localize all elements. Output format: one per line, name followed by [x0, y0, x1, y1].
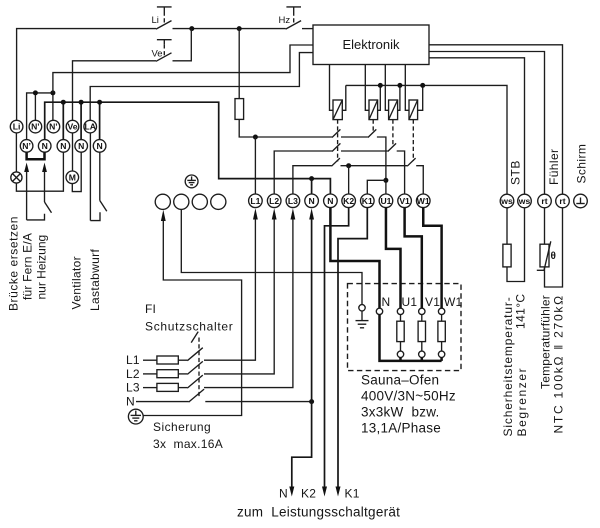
fuse L3	[143, 387, 157, 389]
svg-text:N: N	[78, 141, 84, 151]
linkage coil K4 to row3 contact	[412, 120, 414, 161]
terminal ws1	[500, 194, 514, 208]
wire row2 mid segment	[341, 150, 388, 152]
svg-text:N: N	[327, 196, 333, 206]
wire box right output to rt2	[429, 45, 563, 194]
terminal L1	[249, 194, 263, 208]
node row1 K1 tap dot	[383, 178, 388, 183]
wire N' bus to Elektronik box input	[53, 45, 313, 93]
switch Ve actuator dashed stem	[163, 44, 165, 57]
svg-text:Elektronik: Elektronik	[342, 37, 400, 52]
relay coil K3 leads	[385, 65, 400, 111]
svg-text:W1: W1	[417, 196, 430, 206]
switch Ve actuator T-bar	[157, 40, 172, 45]
svg-text:K1: K1	[362, 196, 373, 206]
svg-text:N: N	[382, 295, 391, 309]
svg-text:nur Heizung: nur Heizung	[35, 235, 49, 300]
svg-text:N: N	[96, 141, 102, 151]
wire W1 to oven	[423, 208, 441, 309]
svg-text:N’: N’	[22, 141, 31, 151]
wire box right output to rt1	[429, 52, 545, 195]
terminal rt1	[538, 194, 552, 208]
svg-text:Schutzschalter: Schutzschalter	[145, 320, 234, 334]
wire row3 mid segment	[341, 165, 408, 167]
svg-text:N: N	[308, 196, 314, 206]
relay coil K1 body	[333, 100, 342, 120]
wire N supply to junction	[205, 401, 311, 403]
switch Lastabwurf blade	[100, 201, 107, 212]
wire PE circle 2 to oven chassis	[181, 209, 362, 304]
thermal limiter STB element	[506, 208, 508, 244]
svg-text:V1: V1	[425, 295, 440, 309]
terminal L3	[286, 194, 300, 208]
svg-text:L1: L1	[126, 353, 140, 367]
arrow up into terminal L2	[272, 208, 277, 219]
motor M ventilator	[66, 171, 79, 184]
fuse F1 control circuit	[235, 99, 244, 120]
wire remote switch stub and bottom	[27, 214, 45, 220]
svg-text:ws: ws	[518, 196, 531, 206]
wire row1 output to U1	[377, 137, 386, 194]
svg-text:3x3kW bzw.: 3x3kW bzw.	[361, 405, 440, 420]
terminal N row2-4	[75, 140, 88, 153]
wire lamp to N circle 3	[16, 152, 63, 191]
svg-text:L1: L1	[250, 196, 260, 206]
svg-text:STB: STB	[509, 160, 523, 185]
wire Lastabwurf stub and bottom	[90, 212, 100, 220]
earth symbol above PE block	[185, 175, 198, 188]
wire Ve switch output up to Li junction	[173, 29, 192, 61]
earth symbol supply PE	[128, 409, 143, 424]
oven PE terminal	[359, 305, 365, 311]
node N supply junction	[309, 399, 314, 404]
svg-text:V1: V1	[399, 196, 410, 206]
actuator FI tick	[191, 332, 198, 343]
contact row3 K4 blade	[407, 158, 415, 166]
wire oven star point N bus	[380, 315, 442, 361]
wire STB loop bottom	[507, 208, 525, 282]
svg-text:400V/3N~50Hz: 400V/3N~50Hz	[361, 389, 456, 404]
arrow up into bridge left	[24, 163, 29, 173]
switch Li actuator T-bar	[157, 7, 172, 12]
terminal K2	[342, 194, 356, 208]
wire L3 to terminal riser	[204, 219, 293, 388]
fuse L2	[143, 373, 157, 375]
svg-text:Ve: Ve	[67, 122, 77, 132]
svg-text:θ: θ	[551, 251, 556, 262]
node bridge bus dot 2	[50, 90, 55, 95]
wire K2 terminal down to output arrow	[325, 208, 349, 487]
switch FI pole L3 blade	[187, 375, 203, 388]
lamp sauna light	[11, 172, 22, 183]
fuse L1	[143, 359, 157, 361]
svg-text:Begrenzer: Begrenzer	[515, 367, 529, 437]
node row3 K2-terminal tap dot	[346, 163, 351, 168]
terminal rt2	[556, 194, 570, 208]
wire N drop to circle 5	[99, 102, 101, 140]
relay coil K4 leads	[405, 65, 422, 111]
contact row1 K2 blade	[368, 129, 376, 137]
relay coil K4 body	[409, 100, 418, 120]
terminal N' row2-1	[20, 140, 33, 153]
svg-text:Schirm: Schirm	[575, 144, 589, 184]
arrow up into terminal N1	[309, 208, 314, 219]
terminal Schirm earth	[574, 194, 588, 208]
relay coil K2 leads	[365, 65, 380, 111]
switch FI pole N blade	[189, 389, 205, 402]
arrow down output K1	[336, 487, 341, 497]
wire K2 terminal tap	[348, 166, 350, 194]
wire neutral bus to N terminals	[45, 102, 331, 194]
svg-text:N: N	[279, 487, 288, 501]
terminal LA	[84, 120, 97, 133]
terminal W1	[416, 194, 430, 208]
svg-text:L2: L2	[269, 196, 279, 206]
contact row2 K3 blade	[388, 143, 396, 151]
terminal Li	[10, 120, 23, 133]
node junction fuse top	[237, 26, 242, 31]
node bridge bus dot 1	[33, 90, 38, 95]
arrow up into terminal L1	[253, 208, 258, 219]
linkage FI dashed	[198, 338, 200, 398]
svg-text:FI: FI	[145, 302, 156, 316]
svg-text:rt: rt	[541, 196, 547, 206]
svg-text:L3: L3	[288, 196, 298, 206]
svg-text:K2: K2	[301, 487, 316, 501]
wire L2 to terminal riser	[204, 219, 274, 374]
wire N drop to circle 3	[62, 102, 64, 140]
wire N2 to oven	[330, 208, 379, 309]
oven dashed enclosure	[348, 284, 462, 371]
switch remote (Fern E/A) blade	[45, 202, 52, 213]
wire row1 mid segment	[341, 136, 368, 138]
oven terminal N	[376, 308, 382, 314]
jumper bridge N'-N (Bruecke)	[27, 152, 45, 159]
wire motor to N circle 4	[72, 152, 81, 191]
terminal N' row1-3	[47, 120, 60, 133]
wire N1 terminal down to output arrow	[292, 219, 312, 487]
switch Ve blade	[156, 53, 172, 62]
svg-text:L2: L2	[126, 367, 140, 381]
oven PE ground symbol	[356, 311, 369, 328]
wire Li terminal to lamp	[15, 133, 17, 172]
svg-text:für Fern E/A: für Fern E/A	[21, 233, 35, 300]
controller box Elektronik	[313, 25, 429, 65]
oven terminal U1	[397, 308, 403, 314]
svg-text:Lastabwurf: Lastabwurf	[88, 248, 102, 311]
svg-text:W1: W1	[444, 295, 463, 309]
wire fuse feed from Li wire	[238, 29, 240, 99]
node bus dot coil K4	[420, 83, 425, 88]
terminal U1	[379, 194, 393, 208]
wire L1 stub to row1	[254, 137, 256, 194]
arrow down output K2	[322, 487, 327, 497]
arrow up into bridge right	[42, 163, 47, 173]
wire row2 output to V1	[397, 151, 405, 194]
svg-text:13,1A/Phase: 13,1A/Phase	[361, 421, 441, 436]
node junction Ve/Li	[189, 26, 194, 31]
terminal N row2-3	[57, 140, 70, 153]
wire L2 stub to row2	[274, 151, 332, 194]
svg-text:141°C: 141°C	[514, 294, 528, 330]
svg-text:L3: L3	[126, 381, 140, 395]
wire N supply to switch	[136, 401, 189, 403]
wire N bus stub to terminal N1	[311, 179, 313, 194]
terminal N2	[324, 194, 338, 208]
wire coil common bus to STB ws1	[346, 85, 507, 194]
terminal N row2-2	[38, 140, 51, 153]
wire V1 to oven	[405, 208, 422, 309]
svg-text:3x max.16A: 3x max.16A	[153, 437, 223, 451]
wire fuse output down to row1	[239, 119, 332, 137]
terminal L2	[267, 194, 281, 208]
terminal block PE circle 1	[155, 194, 170, 209]
svg-text:N: N	[126, 395, 135, 409]
svg-text:Hz: Hz	[279, 15, 291, 26]
svg-text:LA: LA	[84, 122, 95, 132]
node bus dot coil K3	[397, 83, 402, 88]
terminal block PE circle 4	[211, 194, 226, 209]
svg-text:Sicherung: Sicherung	[153, 420, 211, 434]
wire remote switch right leg	[44, 171, 46, 202]
wire LA drop (Lastabwurf left leg)	[89, 133, 91, 221]
wire LA terminal to Elektronik box input	[90, 53, 313, 121]
svg-text:Li: Li	[152, 15, 159, 26]
wire N drop to circle 4	[80, 102, 82, 140]
svg-text:N: N	[60, 141, 66, 151]
svg-text:N: N	[42, 141, 48, 151]
switch Li actuator dashed stem	[163, 12, 165, 26]
svg-text:rt: rt	[559, 196, 565, 206]
svg-text:N’: N’	[49, 122, 58, 132]
wire Ve terminal to motor	[72, 133, 74, 171]
wire Hz switch to Elektronik box	[302, 28, 313, 30]
arrow down output N	[289, 487, 294, 497]
contact row2 main blade	[332, 143, 340, 151]
relay coil K1 leads	[330, 65, 346, 111]
relay coil K2 body	[369, 100, 378, 120]
node N bus junction at terminal N	[309, 176, 314, 181]
switch Hz actuator T-bar	[286, 7, 301, 12]
terminal N row2-5	[93, 140, 106, 153]
oven terminal W1	[438, 308, 444, 314]
svg-text:Brücke ersetzen: Brücke ersetzen	[7, 216, 21, 311]
svg-text:U1: U1	[380, 196, 391, 206]
svg-text:Li: Li	[13, 122, 21, 132]
heater element 2	[421, 315, 423, 322]
svg-text:Ve: Ve	[152, 49, 163, 60]
linkage coil K3 to row2 contact	[392, 120, 394, 147]
linkage coil K1 to contacts	[337, 120, 339, 162]
svg-text:Sauna–Ofen: Sauna–Ofen	[361, 373, 439, 388]
wire remote switch left leg	[26, 171, 28, 220]
wire Lastabwurf right leg from N circle 5	[99, 152, 101, 200]
svg-text:Fühler: Fühler	[547, 149, 561, 185]
oven terminal V1	[419, 308, 425, 314]
relay coil K3 body	[389, 100, 398, 120]
node bus dot coil K2	[378, 83, 383, 88]
terminal block PE circle 3	[192, 194, 207, 209]
arrow up into PE circle 1	[161, 210, 166, 221]
wire box right output to ws2	[429, 58, 525, 194]
terminal N' row1-2	[29, 120, 42, 133]
thermistor NTC element	[544, 208, 546, 244]
contact row3 main blade	[332, 158, 340, 166]
switch FI pole L2 blade	[187, 361, 203, 374]
heater element 3	[441, 315, 443, 322]
node N bus dot 1	[61, 100, 66, 105]
terminal ws2	[518, 194, 532, 208]
svg-text:Ventilator: Ventilator	[70, 256, 84, 310]
svg-text:NTC 100kΩ ‖ 270kΩ: NTC 100kΩ ‖ 270kΩ	[552, 294, 566, 433]
wire Li switch to junction	[173, 28, 286, 30]
wire U1 to oven	[386, 208, 401, 309]
terminal Ve	[66, 120, 79, 133]
linkage coil K2 to row1 contact	[372, 120, 374, 133]
wire L1-fused control feed: Li lamp branch	[17, 29, 156, 121]
wire row3 output to W1	[416, 166, 423, 194]
wire supply PE to terminal block circle 1	[143, 221, 241, 416]
node N bus dot 2	[79, 100, 84, 105]
switch Hz blade	[286, 21, 302, 30]
switch Li blade	[156, 21, 172, 30]
heater element 1	[400, 315, 402, 322]
wire NTC loop bottom	[545, 208, 563, 287]
switch Hz actuator dashed stem	[293, 12, 295, 26]
node N bus dot 3	[97, 100, 102, 105]
node row1 dot above L1	[253, 135, 258, 140]
svg-text:ws: ws	[500, 196, 513, 206]
svg-text:zum Leistungsschaltgerät: zum Leistungsschaltgerät	[237, 505, 400, 520]
svg-text:M: M	[69, 173, 76, 183]
wire K1 tap	[367, 180, 386, 194]
wire L3 stub to row3	[293, 166, 332, 194]
arrow up into terminal L3	[291, 208, 296, 219]
svg-text:K1: K1	[345, 487, 360, 501]
wire bridge bus N' circles	[27, 93, 53, 140]
switch FI pole L1 blade	[187, 348, 203, 361]
svg-text:U1: U1	[402, 295, 418, 309]
terminal N1	[305, 194, 319, 208]
svg-text:N’: N’	[31, 122, 40, 132]
svg-text:K2: K2	[343, 196, 354, 206]
wire K1 terminal down to output arrow	[338, 208, 367, 487]
wire Ve terminal riser and feed	[73, 61, 157, 121]
svg-text:Temperaturfühler: Temperaturfühler	[539, 295, 553, 389]
terminal block PE circle 2	[174, 194, 189, 209]
terminal K1	[361, 194, 375, 208]
terminal V1	[398, 194, 412, 208]
contact row1 main blade	[332, 129, 340, 137]
wire L1 to terminal riser	[204, 219, 255, 360]
